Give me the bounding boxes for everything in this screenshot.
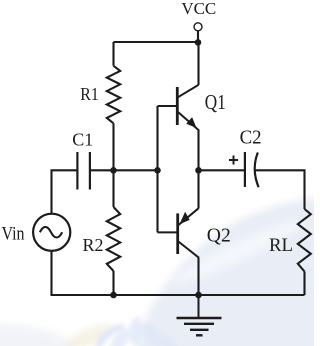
wire emitter node to C2 — [199, 169, 245, 171]
svg-text:R1: R1 — [80, 84, 99, 104]
svg-text:RL: RL — [269, 235, 293, 256]
wire Q1 collector rail — [197, 42, 199, 85]
svg-text:VCC: VCC — [181, 0, 216, 18]
svg-text:Vin: Vin — [2, 225, 25, 245]
node bias junction — [110, 167, 117, 174]
resistor R2 — [107, 207, 120, 271]
wire R1 bottom lead — [112, 123, 114, 170]
wire RL bottom lead — [303, 272, 305, 296]
svg-text:C2: C2 — [240, 128, 262, 149]
wire C2 to RL — [256, 170, 305, 209]
wire left input rail top — [52, 170, 77, 214]
node R2 bottom junction — [110, 292, 117, 299]
resistor R1 — [107, 66, 120, 124]
svg-text:C1: C1 — [72, 130, 93, 150]
node base junction — [154, 167, 161, 174]
node emitter junction — [195, 167, 202, 174]
wire base rail — [156, 106, 158, 232]
source Vin — [33, 214, 70, 251]
wire bottom rail — [114, 294, 305, 296]
capacitor C1 — [77, 152, 90, 190]
VCC terminal — [194, 23, 202, 31]
wire emitter node rail — [197, 130, 199, 209]
wire VCC stub — [197, 31, 199, 43]
wire C1 to bias node — [91, 169, 158, 171]
svg-text:Q2: Q2 — [207, 225, 231, 247]
transistor Q2 — [158, 208, 200, 257]
wire R1 top lead — [112, 42, 114, 66]
svg-text:Q1: Q1 — [205, 90, 226, 114]
wire Vin to bottom rail — [52, 251, 114, 295]
C2 plus sign — [229, 156, 238, 165]
capacitor C2 — [245, 152, 259, 187]
node VCC junction — [195, 39, 202, 46]
wire Q2 collector to bottom rail — [197, 258, 199, 295]
transistor Q1 — [158, 85, 199, 130]
wire R2 top lead — [112, 170, 114, 207]
ground — [177, 295, 222, 335]
wire R2 bottom lead — [112, 271, 114, 295]
wire top rail — [114, 41, 199, 43]
node ground junction — [195, 292, 202, 299]
resistor RL — [298, 209, 311, 272]
svg-text:R2: R2 — [82, 235, 103, 255]
